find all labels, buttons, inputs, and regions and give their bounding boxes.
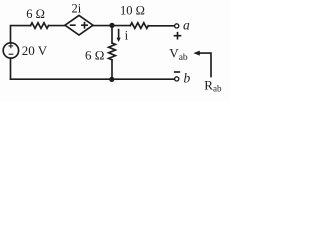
svg-text:6 Ω: 6 Ω (85, 47, 104, 62)
svg-text:2i: 2i (72, 2, 82, 16)
svg-text:a: a (183, 17, 190, 32)
svg-text:6 Ω: 6 Ω (26, 7, 45, 21)
svg-text:Rab: Rab (204, 77, 222, 93)
svg-text:20 V: 20 V (22, 43, 48, 58)
svg-text:Vab: Vab (169, 46, 188, 63)
svg-text:b: b (184, 70, 191, 85)
svg-text:10 Ω: 10 Ω (120, 4, 145, 18)
svg-text:i: i (125, 27, 129, 42)
